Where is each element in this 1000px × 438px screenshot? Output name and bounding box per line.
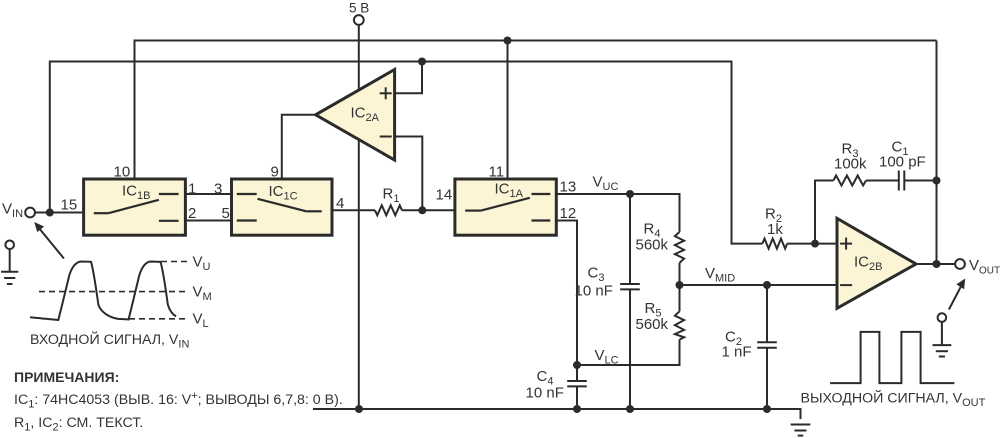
capacitor C2 plates [757,341,777,343]
svg-text:5: 5 [222,205,230,222]
VOUT terminal [955,259,965,269]
wire V_MID to R5 top [679,285,681,311]
wire IC2B output to VOUT terminal [916,263,955,265]
annotation arrow output waveform to VOUT [949,279,965,310]
svg-text:1: 1 [188,181,196,198]
svg-text:4: 4 [336,195,344,212]
wire node V_MID to IC2B - input [680,284,838,286]
wire VIN terminal to IC1B pin 15 [35,212,84,214]
node junction V_UC / C3 [626,190,634,198]
svg-text:VLC: VLC [595,347,619,367]
resistor R2 [762,239,787,249]
svg-text:100 pF: 100 pF [879,154,926,171]
wire IC2A - input down to R1 node [395,137,423,211]
node junction IC2B + input / feedback [811,240,819,248]
svg-text:IC1: 74HC4053 (ВЫВ. 16: V+; ВЫ: IC1: 74HC4053 (ВЫВ. 16: V+; ВЫВОДЫ 6,7,8… [14,390,343,411]
op-amp IC2A (points left) [316,70,395,161]
node junction on VIN net above IC2A + input [418,58,426,66]
svg-text:11: 11 [489,164,505,181]
5V supply terminal [354,15,364,25]
resistor R4 [675,232,684,263]
svg-text:1k: 1k [767,221,783,238]
capacitor C1 plates [898,171,900,191]
capacitor C4 plates [567,380,587,382]
resistor R5 [675,311,684,339]
svg-text:13: 13 [560,179,577,196]
resistor R3 [833,176,866,186]
capacitor C3 plates [620,283,640,285]
svg-text:560k: 560k [636,316,669,333]
svg-text:10 nF: 10 nF [575,283,613,300]
svg-text:VIN: VIN [2,201,23,221]
svg-text:9: 9 [271,164,279,181]
wire VIN net: up from VIN node, across, down to R2 [50,62,763,244]
svg-text:VMID: VMID [705,265,735,285]
annotation arrow input waveform to VIN [34,222,64,259]
node junction on top net above IC1A pin 11 [504,37,512,45]
node junction V_LC / C4 [573,361,581,369]
svg-text:5 В: 5 В [349,1,369,16]
wire C2 bottom stem to rail [766,348,768,409]
svg-text:VM: VM [193,284,212,304]
wire IC2A output to IC1C pin9 [282,115,316,179]
node junction C3 / 0V rail [626,405,634,413]
VIN terminal [25,208,35,218]
svg-text:15: 15 [61,197,78,214]
switch IC1A [455,179,556,235]
ground symbol at output terminal [933,313,952,356]
ground symbol on 0V rail [791,425,811,436]
output waveform sketch (square wave) [830,332,954,383]
wire 5V supply vertical down to 0V rail (passes behind IC2A) [358,25,360,409]
svg-text:100k: 100k [834,156,867,173]
node junction V_MID / C2 [763,281,771,289]
svg-text:1 nF: 1 nF [722,343,752,360]
wire IC1B pin1 to IC1C pin3 [185,193,231,195]
svg-text:C3: C3 [588,265,605,285]
wire C2 top stem from V_MID [766,285,768,342]
wire IC1A pin12 down to V_LC [556,221,577,366]
svg-text:14: 14 [436,187,453,204]
op-amp IC2B (points right) [837,218,916,308]
node junction feedback / output vertical [933,177,941,185]
wire feedback from + node up to R3 [815,181,833,244]
wire C4 bottom stem to rail [576,387,578,410]
node junction V_MID / R4 R5 [676,281,684,289]
svg-text:ВХОДНОЙ СИГНАЛ, VIN: ВХОДНОЙ СИГНАЛ, VIN [30,330,189,351]
wire C1 to output vertical [904,180,936,182]
wire 0V bottom rail [313,409,801,419]
wire R5 bottom to node V_LC [577,340,680,366]
switch IC1B [84,179,186,235]
wire R3 to C1 [866,180,899,182]
svg-text:VUC: VUC [593,174,619,194]
svg-text:ПРИМЕЧАНИЯ:: ПРИМЕЧАНИЯ: [14,369,119,385]
svg-text:12: 12 [560,205,577,222]
dashed level line VM [39,291,189,293]
svg-text:ВЫХОДНОЙ СИГНАЛ, VOUT: ВЫХОДНОЙ СИГНАЛ, VOUT [801,389,986,410]
wire C3 top stem from V_UC [629,194,631,284]
svg-text:10 nF: 10 nF [526,385,564,402]
node VIN junction [46,209,54,217]
wire IC2A + input to VIN net [395,62,422,94]
wire right vertical from top net to IC2B output [936,41,938,265]
svg-text:VL: VL [193,311,209,331]
svg-text:560k: 560k [636,237,669,254]
node junction IC2B output [933,260,941,268]
wire C4 top stem [576,365,578,381]
wire IC1B pin2 to IC1C pin5 [185,220,231,222]
svg-text:10: 10 [114,164,131,181]
svg-text:VOUT: VOUT [969,257,1000,277]
wire IC1C pin4 to R1 [332,209,375,211]
svg-text:R1: R1 [383,186,400,206]
node junction C4 / 0V rail [573,405,581,413]
node junction C2 / 0V rail [763,405,771,413]
dashed level line VL [129,318,189,320]
resistor R1 [375,205,402,215]
ground symbol at input terminal [1,241,18,285]
wire pin11 stub from top net [507,41,509,180]
svg-text:3: 3 [214,181,222,198]
wire node V_UC: IC1A pin13 to R4 top [556,194,679,232]
svg-text:R1, IC2: СМ. ТЕКСТ.: R1, IC2: СМ. ТЕКСТ. [14,415,143,434]
wire R1 to IC1A pin14 [402,209,455,211]
switch IC1C [232,179,333,235]
input waveform sketch [30,262,176,321]
node junction 5V/0V rail [355,405,363,413]
svg-text:VU: VU [193,254,211,274]
node junction R1 / IC2A inverting input [418,206,426,214]
wire VOUT control net top: pin10 up, across top, down at right [135,41,937,180]
dashed level line VU [161,261,189,263]
wire C3 bottom stem to rail [629,289,631,409]
wire R4 bottom to V_MID [679,263,681,285]
wire R2 to IC2B + input [787,243,837,245]
svg-text:2: 2 [188,205,196,222]
